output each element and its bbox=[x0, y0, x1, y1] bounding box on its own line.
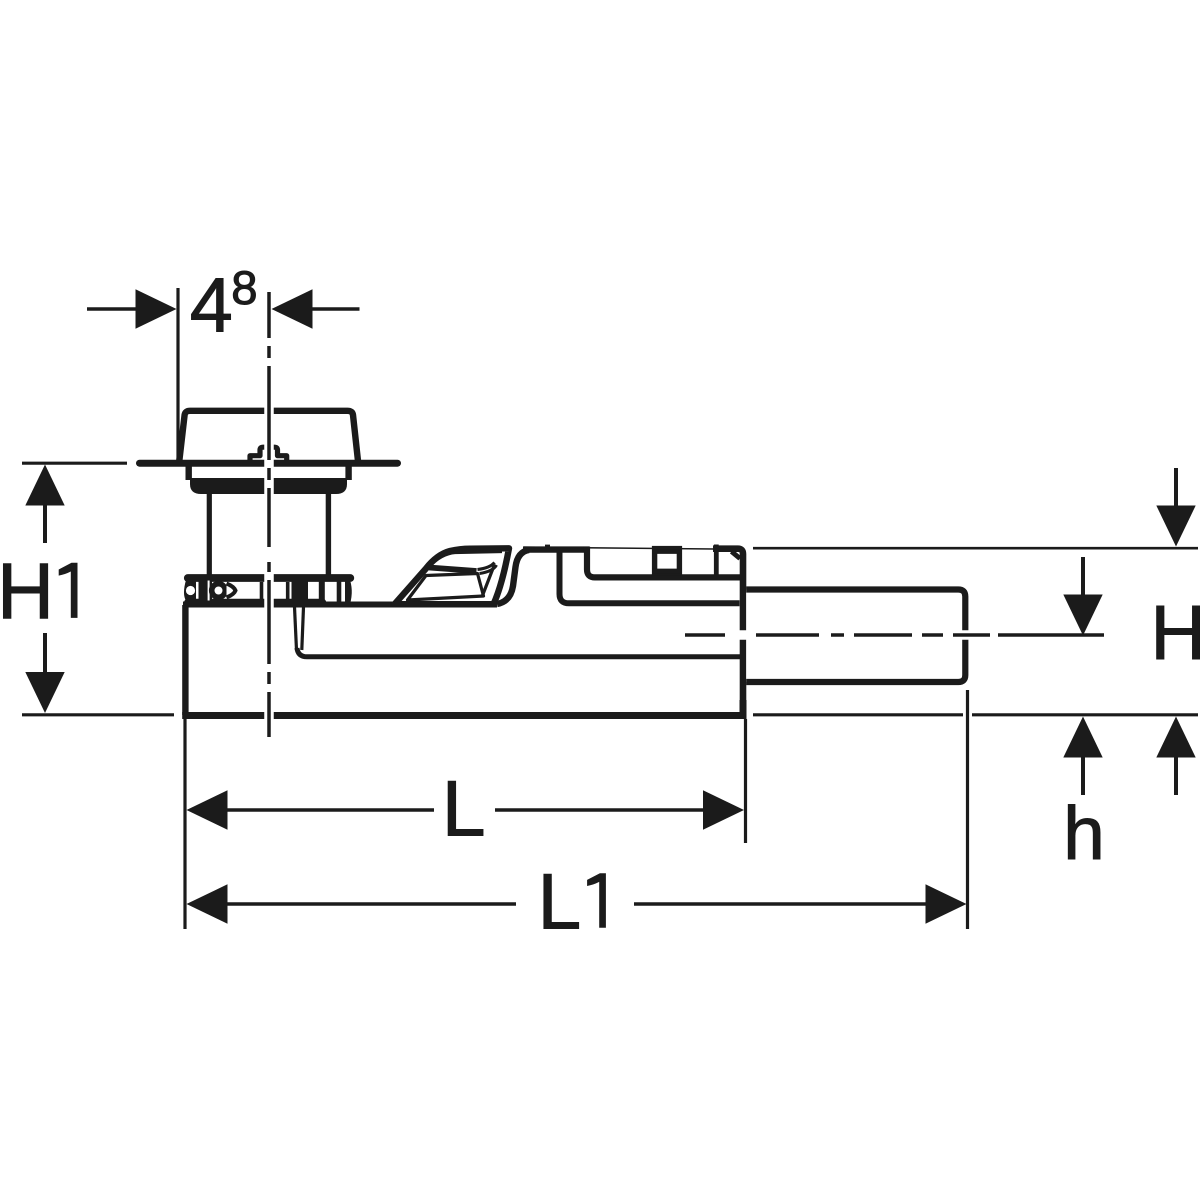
body left wall bbox=[182, 605, 188, 715]
svg-text:L: L bbox=[442, 765, 486, 853]
body top surface right bbox=[713, 549, 743, 712]
clip (square fастener) bbox=[655, 549, 680, 573]
H1 arrow up bbox=[25, 465, 64, 506]
body outlet funnel left bbox=[295, 607, 297, 650]
clamp screw ring bbox=[212, 584, 226, 598]
extension line flange level bbox=[22, 462, 127, 465]
L arrow right bbox=[703, 790, 744, 829]
centerline vertical (drain axis) with white casing bbox=[264, 292, 274, 737]
handle fin tip curve 1 bbox=[478, 563, 495, 570]
outlet pipe bbox=[746, 590, 965, 683]
handle fin dark band bbox=[429, 568, 477, 572]
L1 arrow left bbox=[187, 884, 228, 923]
h arrow down to centerline bbox=[1081, 557, 1085, 597]
clamp left housing bbox=[184, 580, 196, 601]
svg-text:H: H bbox=[0, 546, 54, 635]
extension line pipe end (with white casing over bottom ext line) bbox=[963, 690, 972, 929]
L arrow left bbox=[187, 790, 228, 829]
handle fin face bbox=[408, 574, 484, 601]
clamp rib 3 bbox=[319, 581, 325, 601]
H1 arrow down bbox=[43, 633, 47, 673]
clamp rib 1 bbox=[260, 582, 264, 599]
centerline horizontal (pipe axis) with white casing bbox=[685, 630, 1104, 640]
clamp dark block bbox=[292, 581, 309, 603]
clamp screw body bbox=[199, 579, 213, 603]
clamp top bar bbox=[188, 574, 350, 582]
clamp right end bbox=[345, 577, 352, 604]
body outlet funnel right bbox=[302, 607, 304, 650]
handle fin inner curve bbox=[401, 552, 502, 598]
L dim line seg 1 bbox=[226, 808, 434, 812]
H arrow down to top surface bbox=[1174, 468, 1178, 508]
arrow right-pointing bbox=[136, 289, 177, 328]
dim tail right bbox=[311, 307, 360, 311]
riser pipe right wall bbox=[326, 492, 331, 576]
extension line body right bbox=[744, 719, 747, 843]
body bottom line bbox=[182, 712, 746, 719]
top back thin edge bbox=[524, 547, 714, 549]
extension line body left bbox=[183, 719, 186, 929]
arrow left-pointing bbox=[272, 289, 313, 328]
pocket recess bbox=[587, 547, 743, 578]
flange (floor plate line) bbox=[140, 460, 398, 467]
body inner step bbox=[560, 553, 740, 604]
body top line left bbox=[183, 602, 497, 608]
handle fin tip diagonal bbox=[483, 565, 495, 596]
handle fin tip curve 2 bbox=[480, 565, 497, 574]
body inner ledge bbox=[297, 648, 740, 657]
body step-up curve bbox=[497, 550, 529, 604]
svg-text:L: L bbox=[538, 858, 582, 946]
extension line cap edge bbox=[176, 288, 179, 460]
handle fin outer bbox=[395, 548, 510, 604]
dimension L1 bbox=[187, 690, 968, 929]
L1 dim line seg 2 bbox=[634, 902, 927, 906]
L dim line seg 2 bbox=[495, 808, 704, 812]
svg-text:H: H bbox=[1150, 590, 1200, 676]
cap (drain cover) bbox=[179, 411, 358, 461]
tab on flange (stepped knob) bbox=[250, 447, 287, 461]
bowl (filled band) bbox=[190, 478, 347, 494]
dimension H right bbox=[753, 468, 1198, 795]
dimension h right bbox=[1063, 557, 1102, 795]
dimension 4-8 top bbox=[87, 288, 360, 460]
h arrow up to bottom bbox=[1063, 717, 1102, 758]
svg-text:h: h bbox=[1063, 791, 1105, 875]
extension line bottom level right bbox=[753, 713, 1198, 716]
body top right chamfer bbox=[732, 552, 741, 559]
svg-text:4: 4 bbox=[190, 262, 233, 348]
L1 dim line seg 1 bbox=[226, 902, 516, 906]
clamp bottom bar bbox=[188, 599, 323, 607]
dimension L bbox=[185, 719, 746, 929]
top surface ridge bump bbox=[545, 545, 550, 549]
riser pipe left wall bbox=[207, 492, 212, 576]
L1 arrow right bbox=[926, 884, 967, 923]
body top surface mid bbox=[523, 546, 589, 552]
clamp rib 2 bbox=[286, 582, 290, 600]
drain trap device bbox=[140, 411, 966, 716]
clamp screw tip bbox=[227, 584, 236, 598]
svg-text:8: 8 bbox=[231, 262, 257, 315]
clamp rib 4 bbox=[337, 581, 342, 602]
dimension H1 left bbox=[22, 463, 174, 715]
body right wall lower bbox=[740, 700, 747, 713]
extension line top surface right bbox=[753, 547, 1198, 550]
dim tail left bbox=[87, 307, 140, 311]
collar left wall bbox=[185, 466, 191, 480]
collar right wall bbox=[345, 466, 351, 480]
H arrow up to bottom bbox=[1156, 717, 1195, 758]
extension line bottom level left bbox=[22, 713, 174, 716]
